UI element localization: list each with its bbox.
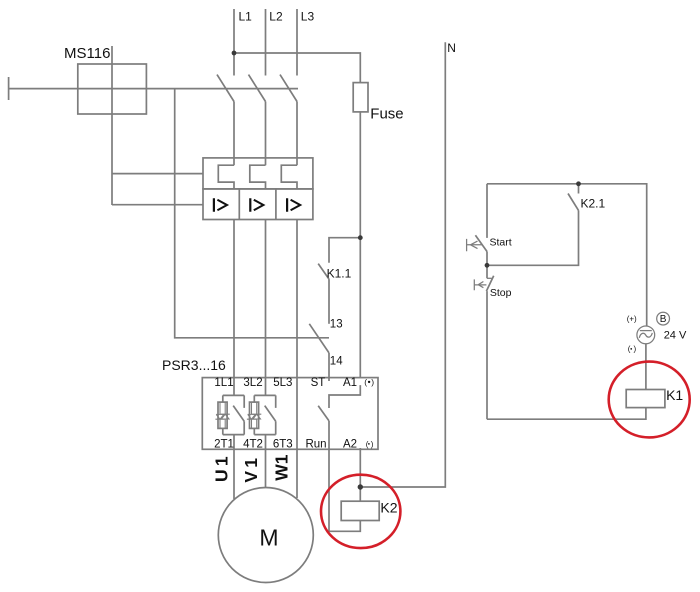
svg-text:U1: U1	[212, 453, 232, 482]
svg-text:(+): (+)	[627, 315, 637, 324]
svg-text:PSR3...16: PSR3...16	[162, 357, 226, 373]
svg-text:4T2: 4T2	[243, 438, 263, 450]
svg-text:V1: V1	[241, 455, 261, 483]
svg-text:L2: L2	[269, 10, 283, 24]
svg-text:2T1: 2T1	[214, 438, 234, 450]
svg-text:K2: K2	[380, 499, 397, 515]
svg-text:W1: W1	[271, 454, 291, 481]
svg-text:A2: A2	[343, 438, 357, 450]
svg-text:(: (	[364, 377, 367, 387]
svg-text:24 V: 24 V	[664, 330, 687, 342]
svg-text:L3: L3	[301, 10, 315, 24]
svg-text:A1: A1	[343, 377, 357, 389]
svg-text:5L3: 5L3	[273, 377, 292, 389]
svg-text:): )	[634, 345, 637, 354]
svg-text:): )	[371, 377, 374, 387]
svg-text:Run: Run	[305, 438, 326, 450]
svg-text:B: B	[660, 314, 667, 325]
svg-text:ST: ST	[311, 377, 326, 389]
svg-text:Start: Start	[490, 237, 512, 249]
svg-text:1L1: 1L1	[214, 377, 233, 389]
svg-text:K1: K1	[666, 387, 683, 403]
svg-text:): )	[371, 440, 374, 449]
svg-text:M: M	[259, 524, 278, 550]
svg-text:6T3: 6T3	[273, 438, 293, 450]
svg-text:Stop: Stop	[490, 287, 512, 299]
svg-text:K1.1: K1.1	[327, 267, 352, 281]
svg-text:3L2: 3L2	[243, 377, 262, 389]
svg-text:Fuse: Fuse	[370, 105, 403, 122]
svg-text:N: N	[447, 41, 456, 55]
svg-text:(: (	[628, 345, 631, 354]
svg-text:MS116: MS116	[64, 45, 110, 62]
svg-text:(: (	[366, 440, 369, 449]
svg-text:13: 13	[330, 319, 343, 331]
svg-text:K2.1: K2.1	[581, 197, 606, 211]
svg-text:L1: L1	[239, 10, 253, 24]
svg-text:14: 14	[330, 356, 343, 368]
